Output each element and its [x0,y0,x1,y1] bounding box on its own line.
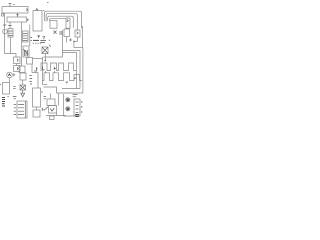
resistor R2 striped box [23,31,29,42]
wire W1 left vertical from U1 [4,13,6,54]
label 52 [44,96,46,98]
wire loop to R4 [77,29,79,31]
wire vertical x58.5 [58,94,60,106]
bottom bar of right cluster [64,115,81,117]
wire K2 to R3 [66,28,68,31]
wire M1 down [9,78,11,83]
loop coil box K2 [66,18,70,28]
bus BM horizontal mid [44,56,63,58]
label U above [34,70,37,72]
resistor R3 [64,29,70,37]
bus BR2 [63,53,77,89]
box U2 second wide block [7,17,27,22]
wire C1 to D1 [36,107,38,110]
label 6 right of U2 [28,19,29,21]
wire F2 to mixer [22,80,24,85]
wire right vertical to bottom [82,48,84,94]
wire down to C1 top [37,73,39,89]
wire mid-right descending W5 [62,30,64,57]
wire W4 right rail [29,25,31,47]
dashes right rail [81,101,83,113]
box E1 [27,58,33,65]
box D1 [33,110,40,117]
dotted label row [33,42,42,44]
wire W1 horizontal jog [5,54,17,58]
bus BR1 [63,51,81,89]
dark blob bottom of H1 [75,115,79,117]
loop antenna turn 4 [49,19,66,21]
resistor R1 striped box [8,29,13,38]
box U3 tall block top-middle [33,11,42,32]
label 14 [60,31,62,35]
label marks right of R2 [30,38,32,41]
line with node dot left of row2 [42,84,47,86]
FIG label rotated text [2,98,5,107]
box B1 portrait block [3,83,10,95]
loop coil box K1 [50,21,57,29]
meter M1 circle with squiggle [7,72,13,78]
small square pad P1 [2,14,4,16]
dash right of C1 [41,91,43,93]
hair tick row2 [46,71,55,73]
gear G_b symbol [66,107,70,111]
antenna arrow down [21,90,25,97]
node dot loop top-left [43,9,44,11]
text SA label [40,41,46,43]
dashes right of B1 [13,87,15,89]
box A2 [14,66,21,72]
box U1 top-left wide block [2,7,28,14]
junction bar on W1 [3,24,7,26]
mixer X1 crossed box [20,85,26,90]
tick arrows left of TB1 [14,104,17,114]
wire R4 down to junction [74,37,78,48]
label 8 beside M1 [14,73,15,76]
connector CN1 comb box [23,46,29,57]
label 4 [69,38,71,41]
label 5 [42,108,44,111]
resistor R4 [75,30,80,37]
bus BB1 [44,87,84,93]
box A1 [14,57,21,64]
loop antenna turn 1 [45,11,82,28]
bus BB3 right upper [62,88,80,90]
junction bar on W2 [8,25,12,27]
diode box DX with cross [42,47,48,54]
label 7 right [43,37,45,40]
glyph in pulse2 [54,67,56,70]
node dot [49,39,50,41]
loop antenna turn 2 [46,14,77,29]
box C1 tall bottom-center-left [33,88,41,107]
glyph under pulse [66,82,68,83]
box H1 tall right [74,99,80,116]
table box TB1 with rows [17,101,27,118]
wire left edge of right cluster [63,94,65,116]
wire bottom jog right cluster [74,47,83,49]
cap mark on U3 top [36,9,39,11]
node dot under B1 [7,96,8,98]
gear G_a symbol [66,98,70,102]
stub with dot [44,54,46,61]
pin mark above U1 [13,4,15,6]
node dot top-right [47,2,49,4]
wire E1 to WX [33,58,43,60]
leader arrow under U3 [37,35,40,38]
box G2 with check [49,106,57,114]
label tick [49,45,51,47]
waveform row1 pulse train [41,63,77,71]
glyphs in H1 [76,102,79,113]
dark dash label under U3 [33,39,39,41]
glyph in K2 [67,20,69,22]
wire W2 from U2 down [9,22,11,29]
wire W2 lower [10,37,12,54]
lamp L1 circle on W1 [3,29,8,34]
wire WX vertical center [42,57,44,85]
glyph in A1 [18,59,19,62]
wire R3 down [66,37,68,43]
leader diagonal [44,107,48,111]
box G1 [47,99,55,106]
pin tick T1 above U1 [9,4,12,7]
wire from E1 down and right [32,64,38,73]
leader X mark under K1 [54,31,57,34]
bus BOT bottom [46,115,66,117]
box F2 [20,73,26,80]
glyph in A2 [18,67,19,70]
waveform row2 pulse train [42,73,82,81]
wire A1 to A2 [16,64,18,66]
label above table [13,97,17,99]
wire right edge long [82,26,84,48]
wire W3 mid rail from U2 [21,22,23,66]
wire G2 to bus [56,113,58,116]
label 2 inside U1 [26,9,28,12]
junction dot [73,41,74,42]
box F1 [19,66,25,73]
label column 516 [30,76,33,86]
label 6b [36,67,37,71]
label 24 [73,95,78,97]
wire down to G1 [50,94,52,100]
wire U1 to U2 [16,13,19,17]
small box under bus [50,116,55,120]
loop antenna turn 3 [48,16,74,27]
glyph in pulse1 [43,67,45,70]
glyph in R4 [77,32,79,35]
